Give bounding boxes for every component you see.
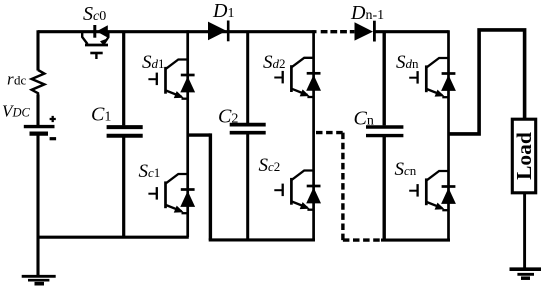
wire left vertical	[36, 30, 39, 275]
wire branch n vertical	[447, 30, 450, 240]
wire dashed bottom	[343, 238, 382, 241]
svg-text:DC: DC	[12, 106, 31, 120]
Sc0 diode triangle	[97, 25, 108, 37]
wire load path	[449, 28, 525, 136]
battery VDC	[24, 125, 55, 128]
Sc0 igbt body	[82, 31, 87, 45]
svg-text:Load: Load	[512, 132, 536, 180]
battery plus sign	[50, 116, 56, 122]
wire dashed vertical	[341, 133, 344, 242]
wire elbow stage1 midpoint to rail2	[188, 133, 211, 136]
svg-text:Sc1: Sc1	[139, 161, 161, 182]
svg-text:Sc2: Sc2	[259, 155, 281, 176]
resistor rdc	[32, 70, 45, 95]
svg-text:Sdn: Sdn	[396, 52, 419, 73]
ground (right)	[510, 267, 542, 271]
svg-text:r: r	[7, 70, 14, 89]
svg-text:Sd2: Sd2	[263, 52, 286, 73]
wire top bus	[38, 30, 317, 33]
wire bottom rail stage n	[381, 239, 450, 242]
wire branch 1 vertical	[186, 30, 189, 237]
wire top bus dashed section	[321, 30, 355, 33]
wire branch 2 vertical	[312, 30, 315, 240]
Sc0 diode bar	[93, 25, 96, 38]
wire dashed stage2 midpoint link	[316, 131, 345, 134]
wire bottom rail stage2	[209, 238, 315, 241]
wire load to ground	[523, 193, 526, 268]
svg-text:dc: dc	[14, 73, 27, 88]
load box	[512, 119, 535, 193]
svg-text:Sd1: Sd1	[142, 52, 165, 73]
Sc0 gate	[90, 52, 102, 55]
battery minus sign	[50, 137, 57, 140]
ground (left)	[22, 275, 56, 278]
wire bottom bus stage1	[37, 236, 189, 239]
wire top bus right section	[375, 30, 449, 33]
svg-text:Scn: Scn	[395, 159, 417, 180]
